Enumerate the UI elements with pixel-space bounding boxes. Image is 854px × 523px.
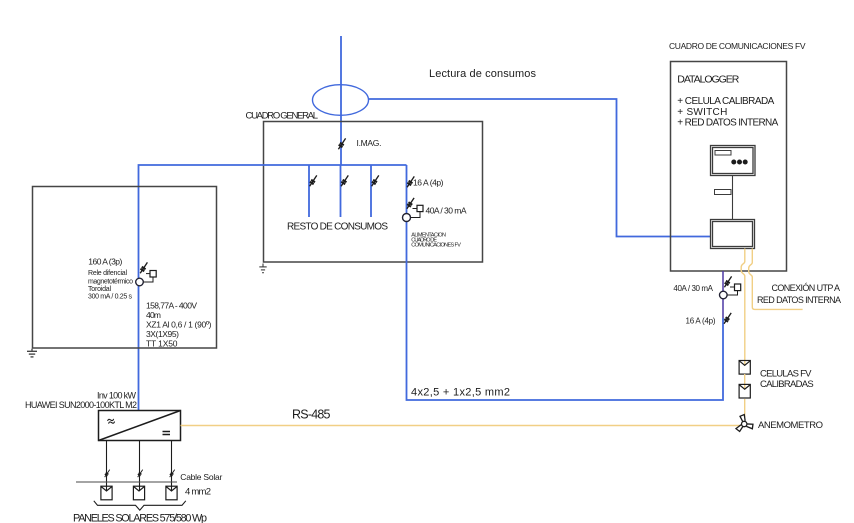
breaker 160 A (3p) [140,262,147,273]
wire: main bus [139,165,407,411]
wire: DC string 2 [139,441,141,491]
svg-text:magnetotérmico: magnetotérmico [88,278,133,285]
wire: yellow between celula2 and anemometer [744,399,746,417]
wire: UTP to red datos interna [749,249,803,310]
svg-text:CUADRO DE COMUNICACIONES FV: CUADRO DE COMUNICACIONES FV [669,41,806,51]
svg-text:300 mA / 0.25 s: 300 mA / 0.25 s [88,294,133,301]
cuadro comunicaciones enclosure [671,62,787,272]
wire: yellow between celulas [744,374,746,389]
svg-text:CELULAS FV: CELULAS FV [760,369,812,380]
wire: feeder drop 3 [370,165,372,217]
wire: meter to datalogger (lectura de consumos) [369,99,711,237]
wire: string rail [76,481,177,483]
svg-text:ANEMOMETRO: ANEMOMETRO [758,420,823,431]
PV panel 1 [101,486,112,500]
fuse string 2 [138,470,143,478]
svg-text:RS-485: RS-485 [292,408,331,422]
breaker feeder 3 [372,175,379,186]
breaker feeder 1 [310,175,317,186]
svg-text:+ CELULA CALIBRADA: + CELULA CALIBRADA [677,96,774,107]
wire: UTP down with jog (to sensors) [741,249,745,366]
RCD 40A/30mA cuadro general: relay link [411,212,421,218]
wire: display to switch [732,176,734,220]
breaker 16 A (4p) cuadro general [407,176,414,187]
svg-text:COMUNICACIONES FV: COMUNICACIONES FV [411,243,461,249]
celula FV 2 [739,384,750,398]
RCD 160A: toroid [136,278,144,286]
svg-text:Inv 100 kW: Inv 100 kW [97,390,137,400]
svg-text:40m: 40m [146,310,161,320]
RCD 40A/30mA comms: relay link [727,291,737,295]
svg-text:CUADRO GENERAL: CUADRO GENERAL [246,111,319,122]
svg-text:16 A (4p): 16 A (4p) [686,317,716,326]
svg-text:+ RED DATOS INTERNA: + RED DATOS INTERNA [677,117,778,128]
acometida enclosure (left box) [33,187,217,349]
inverter DC symbol [163,431,171,433]
svg-text:3X(1X95): 3X(1X95) [146,329,179,339]
RCD 40A/30mA cuadro general: toroid [403,214,411,222]
svg-text:160 A (3p): 160 A (3p) [88,257,122,267]
svg-text:DATALOGGER: DATALOGGER [677,74,739,86]
switch/router unit [711,220,755,249]
svg-text:40A / 30 mA: 40A / 30 mA [426,206,467,216]
RCD 40A/30mA comms: breaker [724,276,731,287]
svg-text:16 A (4p): 16 A (4p) [413,178,444,188]
svg-text:158,77A - 400V: 158,77A - 400V [146,300,197,310]
anemometer [736,415,754,433]
svg-text:4 mm2: 4 mm2 [185,487,211,498]
svg-text:CALIBRADAS: CALIBRADAS [760,379,814,390]
svg-text:PANELES SOLARES 575/580 Wp: PANELES SOLARES 575/580 Wp [73,513,207,523]
svg-text:XZ1 Al 0,6 / 1 (90º): XZ1 Al 0,6 / 1 (90º) [146,320,212,330]
wire: DC string 1 [106,441,108,491]
svg-text:Cable Solar: Cable Solar [180,472,222,482]
svg-text:40A / 30 mA: 40A / 30 mA [673,284,713,293]
svg-text:4x2,5 + 1x2,5 mm2: 4x2,5 + 1x2,5 mm2 [411,387,510,399]
wire: RS-485 bus [181,425,742,427]
RCD 40A/30mA cuadro general: breaker [407,198,414,209]
breaker feeder 2 [341,175,348,186]
PV panel 2 [133,486,144,500]
cuadro general enclosure [264,122,483,263]
antenna slot [715,190,732,195]
svg-text:RED DATOS INTERNA: RED DATOS INTERNA [757,295,841,305]
svg-text:HUAWEI SUN2000-100KTL M2: HUAWEI SUN2000-100KTL M2 [25,400,137,410]
fuse string 3 [170,470,175,478]
breaker 16 A (4p) comms [724,313,731,324]
breaker I.MAG. [338,138,345,149]
wire: DC string 3 [171,441,173,491]
inverter U1 [99,411,181,441]
svg-text:Lectura de consumos: Lectura de consumos [429,68,537,80]
ground cuadro general [259,264,266,273]
fuse string 1 [105,470,110,478]
svg-text:+ SWITCH: + SWITCH [677,107,727,118]
celula FV 1 [739,361,750,375]
inverter AC symbol [107,418,115,425]
datalogger display dots [731,160,747,165]
brace panels [94,501,186,510]
datalogger display unit [711,146,756,176]
RCD 160A: relay link [143,277,153,282]
wire: feeder drop 1 [308,165,310,217]
ground left box [27,349,37,357]
svg-text:TT 1X50: TT 1X50 [146,339,178,349]
energy meter M1 (ellipse) [313,85,369,116]
wire: feed into comms box (violet) [722,271,724,318]
svg-text:I.MAG.: I.MAG. [357,138,382,148]
svg-text:RESTO DE CONSUMOS: RESTO DE CONSUMOS [287,222,388,233]
svg-text:Toroidal: Toroidal [88,286,111,293]
PV panel 3 [166,486,177,500]
wire: feeder drop 2 [340,165,342,217]
wire: feeder to cuadro comunicaciones [407,165,724,400]
wire: incoming supply vertical into meter [340,36,342,165]
svg-text:Rele difencial: Rele difencial [88,270,127,277]
RCD 40A/30mA comms: toroid [720,291,728,299]
svg-text:CONEXIÓN UTP A: CONEXIÓN UTP A [772,283,841,293]
